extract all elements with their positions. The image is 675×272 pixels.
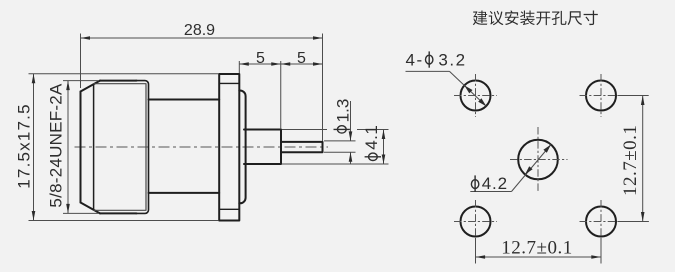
flange — [219, 74, 239, 221]
leader 4-dia3.2 — [406, 70, 450, 72]
svg-text:3.2: 3.2 — [438, 51, 466, 70]
17.5 — [32, 74, 36, 84]
svg-text:4.1: 4.1 — [362, 125, 381, 150]
svg-text:5: 5 — [256, 50, 265, 67]
28.9 dim — [80, 34, 82, 89]
thread major outline — [100, 81, 137, 214]
mid section — [149, 100, 220, 193]
flange corner tangent lines — [219, 83, 239, 209]
dia 4.1 ext lines — [282, 129, 327, 131]
circles — [461, 81, 617, 237]
connector body outline — [81, 74, 323, 221]
svg-text:12.7±0.1: 12.7±0.1 — [620, 125, 641, 196]
thread — [66, 81, 70, 91]
thread start line — [93, 84, 95, 210]
phi4.2 label phi symbol — [471, 180, 478, 189]
bottom chamfer — [81, 203, 101, 214]
insulator boss — [239, 91, 245, 204]
svg-text:4.2: 4.2 — [482, 174, 508, 193]
right vertical dim ext — [618, 95, 649, 97]
nut front face — [80, 92, 82, 203]
svg-text:4-: 4- — [406, 51, 424, 70]
svg-text:5/8-24UNEF-2A: 5/8-24UNEF-2A — [47, 83, 66, 208]
bottom dim arrows — [476, 255, 486, 259]
arrowheads left — [32, 36, 386, 220]
shank outline to right face — [136, 81, 149, 214]
leader arrowheads top-left hole — [464, 86, 472, 94]
5 5 dims — [238, 61, 240, 73]
crosshairs — [454, 74, 623, 243]
leader arrowheads center hole — [525, 166, 533, 174]
svg-text:1.3: 1.3 — [334, 99, 353, 123]
svg-text:12.7±0.1: 12.7±0.1 — [501, 238, 572, 259]
top chamfer — [81, 81, 101, 92]
title text (vector CJK glyphs) — [473, 11, 598, 26]
phi1.3 label — [337, 126, 346, 133]
5 5 — [239, 62, 249, 66]
17.5 dim — [29, 73, 219, 75]
leader dia4.2 — [470, 191, 511, 193]
thread minor dia thin lines — [94, 84, 146, 211]
centerline — [75, 146, 329, 148]
28.9 — [81, 36, 91, 40]
4-phi3.2 label phi symbol — [426, 55, 433, 64]
svg-text:17.5x17.5: 17.5x17.5 — [15, 103, 34, 188]
dia-4.1 cylinder — [244, 130, 281, 165]
svg-text:28.9: 28.9 — [184, 22, 215, 39]
center pin — [281, 142, 323, 152]
dims right — [406, 71, 649, 263]
dia 1.3 ext lines — [324, 140, 356, 142]
phi4.1 label — [369, 153, 378, 160]
dia4.1 inside arrows — [382, 130, 386, 140]
vertical dim arrows — [641, 96, 645, 106]
thread dim — [63, 80, 99, 82]
dia1.3 outside arrows — [349, 131, 353, 141]
svg-text:5: 5 — [297, 50, 306, 67]
bottom dim ext — [475, 238, 477, 264]
